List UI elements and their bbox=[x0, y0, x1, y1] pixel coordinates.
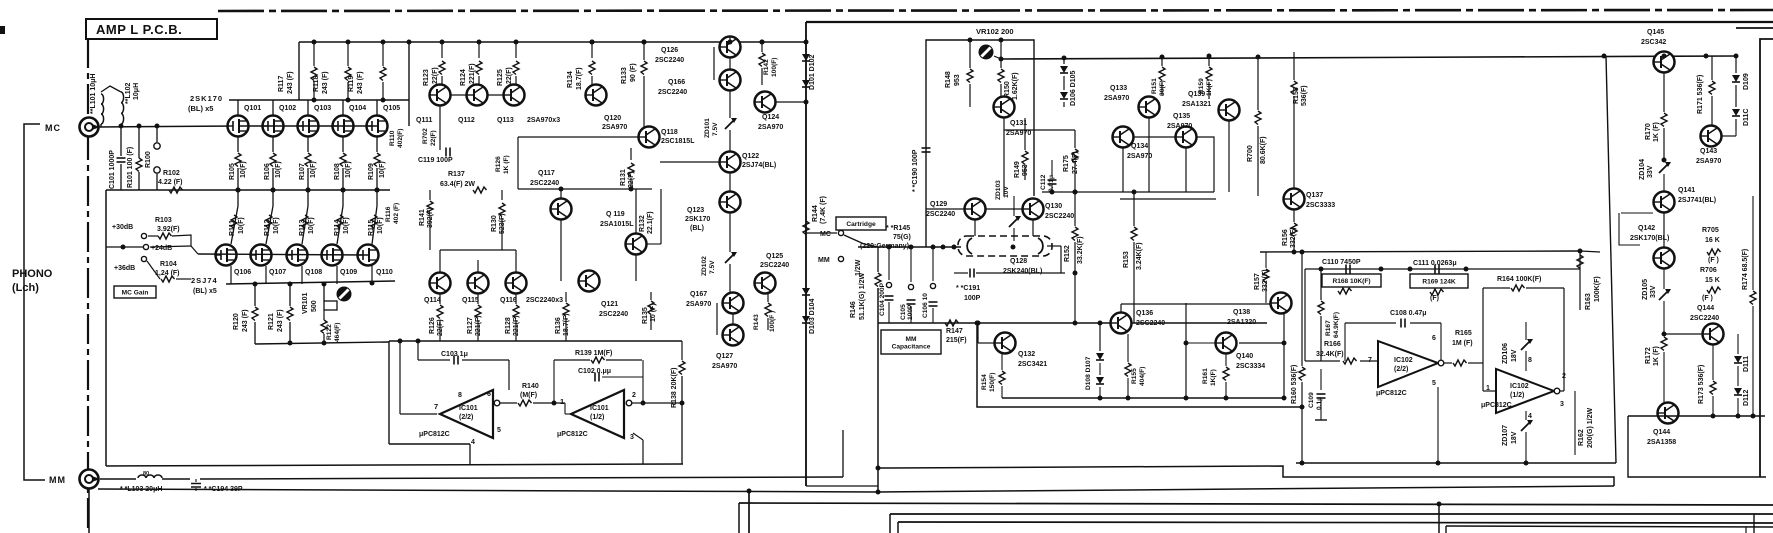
svg-text:2SC2240: 2SC2240 bbox=[655, 57, 684, 64]
svg-text:332 (F): 332 (F) bbox=[1262, 269, 1269, 292]
svg-text:464(F): 464(F) bbox=[334, 323, 341, 342]
svg-text:221(F): 221(F) bbox=[469, 63, 476, 84]
svg-text:ZD107: ZD107 bbox=[1502, 425, 1509, 446]
svg-text:R100: R100 bbox=[145, 151, 152, 168]
svg-text:D108 D107: D108 D107 bbox=[1085, 356, 1092, 390]
transistor Q128 dual fet bbox=[958, 220, 1052, 256]
wire row2 bottom rail bbox=[255, 341, 389, 346]
wire Q114 row top bbox=[440, 250, 516, 272]
svg-text:243 (F): 243 (F) bbox=[242, 309, 249, 332]
svg-text:90 (F): 90 (F) bbox=[630, 63, 637, 82]
capacitor C101 bbox=[117, 124, 126, 191]
svg-text:R137: R137 bbox=[448, 171, 465, 178]
svg-text:Q121: Q121 bbox=[601, 301, 618, 308]
svg-text:C103 1μ: C103 1μ bbox=[441, 351, 468, 358]
diode D105 bbox=[1060, 76, 1068, 107]
zener ZD107 bbox=[1502, 411, 1533, 463]
svg-text:Q104: Q104 bbox=[349, 105, 366, 112]
svg-text:R127: R127 bbox=[467, 317, 474, 334]
transistor Q142 bbox=[1630, 225, 1675, 269]
svg-text:22(F): 22(F) bbox=[628, 171, 635, 188]
node Cartridge label box bbox=[836, 217, 886, 230]
wire bottom verticals bbox=[739, 491, 1439, 533]
svg-text:2SA970: 2SA970 bbox=[686, 301, 711, 308]
svg-text:215(F): 215(F) bbox=[946, 337, 967, 344]
transistor Q127 bbox=[712, 303, 744, 370]
svg-text:R116: R116 bbox=[385, 206, 392, 222]
svg-text:Q108: Q108 bbox=[305, 269, 322, 276]
svg-text:R165: R165 bbox=[1455, 330, 1472, 337]
resistor R133 bbox=[621, 40, 647, 128]
svg-text:243 (F): 243 (F) bbox=[277, 309, 284, 332]
svg-text:33.2K(F): 33.2K(F) bbox=[1077, 236, 1084, 264]
svg-text:8: 8 bbox=[458, 392, 462, 399]
node MC contact bbox=[806, 230, 844, 238]
svg-text:2SC2240x3: 2SC2240x3 bbox=[526, 297, 563, 304]
wire MM bus L4 bbox=[876, 466, 1615, 487]
node MC label bbox=[45, 123, 61, 133]
wire right bottom corner bbox=[1628, 39, 1766, 477]
transistor Q109 bbox=[322, 245, 358, 277]
svg-text:* *C190 100P: * *C190 100P bbox=[912, 149, 919, 192]
zener ZD106 bbox=[1502, 322, 1533, 371]
svg-text:1K (F): 1K (F) bbox=[1653, 346, 1660, 366]
capacitor C105 bbox=[900, 245, 916, 324]
svg-text:100P: 100P bbox=[907, 304, 914, 320]
resistor R142 bbox=[759, 40, 778, 86]
svg-text:2SC2240: 2SC2240 bbox=[658, 89, 687, 96]
zener ZD102 bbox=[701, 213, 737, 292]
svg-text:2SA970: 2SA970 bbox=[602, 124, 627, 131]
transistor Q124 bbox=[755, 92, 809, 132]
wire right rail dots bbox=[1602, 54, 1739, 59]
svg-text:2SC2240: 2SC2240 bbox=[530, 180, 559, 187]
transistor Q119 bbox=[600, 189, 661, 281]
transistor Q125 bbox=[755, 273, 776, 294]
svg-text:R109: R109 bbox=[368, 163, 375, 180]
wire Q140 base bbox=[1184, 303, 1287, 401]
wire FET row2 gate rail bbox=[191, 246, 368, 255]
resistor R146 bbox=[850, 247, 881, 492]
svg-text:18.7(F): 18.7(F) bbox=[576, 67, 583, 90]
svg-text:R132: R132 bbox=[639, 215, 646, 232]
svg-text:100(F ): 100(F ) bbox=[769, 311, 776, 332]
svg-text:392(F): 392(F) bbox=[427, 207, 434, 228]
svg-text:R102: R102 bbox=[163, 170, 180, 177]
wire right rail y58 bbox=[1001, 56, 1736, 59]
svg-text:PHONO: PHONO bbox=[12, 268, 53, 280]
svg-text:10(F): 10(F) bbox=[240, 161, 247, 178]
wire Q141-Q142 bbox=[1663, 213, 1665, 247]
svg-text:Q145: Q145 bbox=[1647, 29, 1664, 36]
node +36dB contact bbox=[114, 256, 147, 272]
svg-text:R149: R149 bbox=[1014, 161, 1021, 178]
resistor R115 bbox=[368, 188, 384, 245]
svg-text:ZD101: ZD101 bbox=[704, 118, 711, 138]
svg-text:(F ): (F ) bbox=[1702, 295, 1713, 302]
svg-text:2SA1358: 2SA1358 bbox=[1647, 439, 1676, 446]
resistor R161 bbox=[1202, 354, 1229, 401]
svg-text:R135: R135 bbox=[642, 307, 649, 324]
svg-text:32.4K(F): 32.4K(F) bbox=[1316, 351, 1344, 358]
wire Q122-Q123 bbox=[729, 173, 731, 191]
svg-text:Q117: Q117 bbox=[538, 170, 555, 177]
wire IC101b pin3 bbox=[633, 433, 643, 464]
capacitor C194 bbox=[191, 479, 201, 491]
svg-text:(F): (F) bbox=[1430, 295, 1439, 302]
svg-text:2SK170: 2SK170 bbox=[685, 216, 710, 223]
svg-text:Q167: Q167 bbox=[690, 291, 707, 298]
transistor Q130 bbox=[1023, 199, 1075, 221]
inductor L102 bbox=[101, 86, 124, 124]
capacitor C104 bbox=[879, 245, 894, 324]
svg-text:0.1μ: 0.1μ bbox=[1316, 397, 1323, 410]
svg-text:243 (F): 243 (F) bbox=[322, 71, 329, 94]
svg-text:ZD105: ZD105 bbox=[1642, 279, 1649, 300]
svg-text:3.24K(F): 3.24K(F) bbox=[1136, 242, 1143, 270]
resistor R125 bbox=[497, 40, 519, 87]
resistor R164 bbox=[1483, 276, 1564, 391]
svg-text:Q114: Q114 bbox=[424, 297, 441, 304]
svg-text:Q122: Q122 bbox=[742, 153, 759, 160]
svg-text:63.4(F) 2W: 63.4(F) 2W bbox=[440, 181, 475, 188]
svg-text:3: 3 bbox=[1560, 401, 1564, 408]
transistor Q122 bbox=[660, 152, 776, 173]
svg-text:18.7(F): 18.7(F) bbox=[563, 313, 570, 336]
svg-text:R104: R104 bbox=[160, 261, 177, 268]
svg-text:C106 10: C106 10 bbox=[922, 293, 929, 318]
svg-text:MM: MM bbox=[818, 257, 830, 264]
node Q128 label bbox=[1003, 258, 1042, 275]
svg-text:(F ): (F ) bbox=[1708, 257, 1719, 264]
wire MM bus L1 bbox=[106, 464, 683, 466]
transistor Q167 bbox=[686, 291, 744, 314]
diode D108 bbox=[1096, 321, 1104, 361]
node D110 label bbox=[1743, 108, 1750, 126]
svg-text:2SC3421: 2SC3421 bbox=[1018, 361, 1047, 368]
resistor R116 bbox=[385, 203, 400, 224]
svg-text:2SC342: 2SC342 bbox=[1641, 39, 1666, 46]
svg-text:R124: R124 bbox=[460, 69, 467, 86]
wire MM bus L3 bbox=[98, 486, 1614, 495]
resistor R124 bbox=[460, 40, 482, 87]
node D101 D102 label bbox=[809, 54, 816, 90]
wire FET row1 gate rail segs bbox=[238, 125, 377, 127]
svg-text:2SC2240: 2SC2240 bbox=[1136, 320, 1165, 327]
svg-text:R121: R121 bbox=[268, 313, 275, 330]
svg-text:D103 D104: D103 D104 bbox=[809, 298, 816, 334]
diode D111 bbox=[1734, 334, 1742, 363]
svg-text:R168 10K(F): R168 10K(F) bbox=[1332, 278, 1370, 285]
node R101 label bbox=[127, 147, 134, 188]
svg-text:1: 1 bbox=[560, 397, 564, 406]
svg-text:Q137: Q137 bbox=[1306, 192, 1323, 199]
inductor L101 bbox=[98, 94, 104, 127]
svg-text:221(F): 221(F) bbox=[513, 315, 520, 336]
svg-text:2SC2240: 2SC2240 bbox=[1045, 213, 1074, 220]
svg-text:R106: R106 bbox=[264, 163, 271, 180]
svg-text:R174 68.5(F): R174 68.5(F) bbox=[1742, 249, 1749, 290]
svg-text:μPC812C: μPC812C bbox=[557, 431, 588, 438]
svg-text:ZD106: ZD106 bbox=[1502, 343, 1509, 364]
svg-text:2SA970: 2SA970 bbox=[1104, 95, 1129, 102]
resistor R169 bbox=[1410, 274, 1468, 302]
svg-text:R171 536(F): R171 536(F) bbox=[1697, 75, 1704, 114]
svg-text:2SC2240: 2SC2240 bbox=[926, 211, 955, 218]
svg-text:R156: R156 bbox=[1282, 229, 1289, 246]
svg-text:R169 124K: R169 124K bbox=[1422, 278, 1456, 285]
wire Q118 rail bbox=[518, 136, 638, 138]
wire feedback bottom rail bbox=[1296, 387, 1616, 466]
transistor Q145 bbox=[1641, 29, 1675, 73]
svg-text:R134: R134 bbox=[567, 71, 574, 88]
svg-text:2SC3334: 2SC3334 bbox=[1236, 363, 1265, 370]
svg-text:R136: R136 bbox=[555, 317, 562, 334]
wire stage2 mid rail bbox=[1004, 118, 1229, 196]
svg-text:Q128: Q128 bbox=[1010, 258, 1027, 265]
svg-text:ZD103: ZD103 bbox=[995, 180, 1002, 200]
svg-text:R172: R172 bbox=[1645, 347, 1652, 364]
node D111 label bbox=[1743, 356, 1750, 372]
svg-text:1: 1 bbox=[1486, 385, 1490, 392]
svg-text:R123: R123 bbox=[423, 69, 430, 86]
svg-text:Q103: Q103 bbox=[314, 105, 331, 112]
svg-text:C101 1000P: C101 1000P bbox=[109, 150, 116, 189]
svg-text:C119 100P: C119 100P bbox=[418, 157, 453, 164]
svg-text:2SA970x3: 2SA970x3 bbox=[527, 117, 560, 124]
wire bottom box y522 bbox=[898, 522, 1773, 533]
svg-text:(BL): (BL) bbox=[690, 225, 704, 232]
wire mid rail y189 bbox=[518, 137, 652, 192]
wire FET row1 drain rail bbox=[229, 100, 409, 116]
svg-text:33V: 33V bbox=[1647, 165, 1654, 178]
transistor Q113 bbox=[497, 85, 560, 125]
svg-text:ZD104: ZD104 bbox=[1639, 159, 1646, 180]
svg-text:R706: R706 bbox=[1700, 267, 1717, 274]
svg-text:2SK170(BL): 2SK170(BL) bbox=[1630, 235, 1669, 242]
wire top-right nested corner b bbox=[1760, 39, 1773, 477]
svg-text:R126: R126 bbox=[495, 156, 502, 172]
wire Q143 links bbox=[1662, 130, 1737, 163]
svg-text:(BL) x5: (BL) x5 bbox=[188, 104, 213, 113]
svg-text:10 (F): 10 (F) bbox=[650, 303, 657, 322]
potentiometer VR102 bbox=[979, 45, 1002, 60]
svg-text:R115: R115 bbox=[368, 220, 375, 236]
svg-text:7: 7 bbox=[434, 402, 438, 411]
transistor Q117 bbox=[530, 170, 572, 220]
svg-text:3.92(F): 3.92(F) bbox=[157, 226, 180, 233]
wire bottom nested box bbox=[1446, 514, 1773, 533]
node 1/2W label bbox=[855, 259, 862, 276]
resistor R148 bbox=[945, 38, 973, 108]
svg-text:33V: 33V bbox=[1650, 285, 1657, 298]
capacitor C108 bbox=[1345, 310, 1441, 363]
resistor R140 bbox=[500, 383, 572, 414]
svg-text:VR101: VR101 bbox=[302, 292, 309, 314]
resistor R175 bbox=[1063, 130, 1079, 192]
svg-text:R143: R143 bbox=[753, 314, 760, 330]
svg-text:R164 100K(F): R164 100K(F) bbox=[1497, 276, 1541, 283]
svg-text:Q166: Q166 bbox=[668, 79, 685, 86]
svg-text:30(F): 30(F) bbox=[1159, 80, 1166, 96]
svg-text:1K (F): 1K (F) bbox=[503, 155, 510, 174]
svg-text:1K (F): 1K (F) bbox=[1653, 122, 1660, 142]
svg-text:Capacitance: Capacitance bbox=[892, 344, 931, 351]
svg-text:51.1K(G) 1/2W: 51.1K(G) 1/2W bbox=[859, 273, 866, 320]
resistor R158 bbox=[1291, 52, 1308, 188]
transistor Q126 bbox=[655, 37, 741, 65]
svg-text:R112: R112 bbox=[264, 220, 271, 236]
resistor R160 bbox=[1291, 250, 1305, 466]
resistor R123 bbox=[423, 40, 445, 87]
svg-text:Q124: Q124 bbox=[762, 114, 779, 121]
resistor R159 bbox=[1198, 54, 1213, 100]
wire MM terminal tail bbox=[88, 438, 90, 533]
resistor R154 bbox=[981, 354, 1005, 398]
svg-text:22(F): 22(F) bbox=[506, 67, 513, 84]
wire MM cap rail y323 bbox=[878, 322, 1267, 324]
node MC input terminal bbox=[80, 118, 101, 137]
resistor R143 bbox=[753, 294, 776, 332]
svg-text:2SA970: 2SA970 bbox=[758, 124, 783, 131]
node +30dB contact bbox=[112, 224, 147, 239]
svg-text:R131: R131 bbox=[620, 169, 627, 186]
svg-text:2SJ741(BL): 2SJ741(BL) bbox=[1678, 197, 1716, 204]
svg-text:1.62K(F): 1.62K(F) bbox=[1012, 72, 1019, 100]
capacitor C119 bbox=[418, 148, 453, 165]
svg-text:402 (F): 402 (F) bbox=[393, 203, 400, 224]
node Q125 label bbox=[760, 253, 789, 269]
transistor Q139 bbox=[1182, 91, 1240, 121]
transistor Q102 bbox=[263, 105, 297, 137]
resistor R144 bbox=[803, 196, 827, 235]
resistor R700 bbox=[1247, 55, 1267, 197]
svg-text:1K(F): 1K(F) bbox=[1206, 79, 1213, 96]
transistor Q129 bbox=[926, 199, 986, 220]
wire feedback rail y252 bbox=[1260, 249, 1600, 255]
svg-text:R702: R702 bbox=[422, 128, 429, 144]
svg-text:C105: C105 bbox=[900, 304, 907, 320]
svg-text:(Lch): (Lch) bbox=[12, 282, 39, 294]
svg-text:R114: R114 bbox=[334, 220, 341, 236]
svg-text:22(F): 22(F) bbox=[437, 319, 444, 336]
svg-text:R173 536(F): R173 536(F) bbox=[1698, 365, 1705, 404]
wire Q117 col bbox=[560, 190, 562, 281]
svg-text:5: 5 bbox=[1432, 380, 1436, 387]
svg-text:64.9K(F): 64.9K(F) bbox=[1333, 312, 1340, 338]
svg-text:R125: R125 bbox=[497, 69, 504, 86]
svg-text:D101 D102: D101 D102 bbox=[809, 54, 816, 90]
resistor R102 bbox=[158, 170, 183, 193]
svg-text:16 K: 16 K bbox=[1705, 237, 1720, 244]
svg-text:C110 7450P: C110 7450P bbox=[1322, 259, 1361, 266]
transistor Q138 bbox=[1271, 293, 1292, 314]
node MM label bbox=[49, 475, 66, 485]
svg-text:221(F): 221(F) bbox=[475, 315, 482, 336]
svg-text:μPC812C: μPC812C bbox=[419, 431, 450, 438]
svg-text:Q129: Q129 bbox=[930, 201, 947, 208]
wire gain box left edge bbox=[105, 190, 107, 466]
node R100 label bbox=[145, 151, 152, 168]
svg-text:Q144: Q144 bbox=[1697, 305, 1714, 312]
svg-text:R110: R110 bbox=[389, 130, 396, 146]
node Q144 label bbox=[1690, 305, 1719, 322]
node Q138 label bbox=[1227, 309, 1256, 326]
svg-text:Q109: Q109 bbox=[340, 269, 357, 276]
svg-text:R170: R170 bbox=[1645, 123, 1652, 140]
svg-text:Q110: Q110 bbox=[376, 269, 393, 276]
resistor R107 bbox=[299, 137, 317, 193]
svg-text:953: 953 bbox=[1022, 164, 1029, 176]
svg-text:Q141: Q141 bbox=[1678, 187, 1695, 194]
resistor R103 bbox=[148, 217, 191, 246]
svg-text:D111: D111 bbox=[1743, 356, 1750, 372]
svg-text:D112: D112 bbox=[1743, 390, 1750, 406]
capacitor C103 bbox=[418, 341, 509, 390]
diode D110 bbox=[1732, 85, 1740, 130]
svg-text:R140: R140 bbox=[522, 383, 539, 390]
node D109 label bbox=[1743, 73, 1750, 90]
node MM input terminal bbox=[80, 470, 101, 489]
resistor R156 bbox=[1282, 210, 1297, 252]
svg-text:R158: R158 bbox=[1293, 87, 1300, 104]
svg-text:953: 953 bbox=[954, 74, 961, 86]
op-amp IC101 (2/2) bbox=[419, 390, 501, 446]
capacitor C112 bbox=[1040, 160, 1057, 192]
transistor Q146 bbox=[1647, 403, 1679, 447]
svg-text:404(F): 404(F) bbox=[1139, 367, 1146, 386]
resistor R110 bbox=[389, 129, 404, 148]
wire VR102 box bbox=[926, 40, 1034, 247]
wire MC lower rail bbox=[106, 189, 390, 191]
wire Q132 base bbox=[976, 321, 995, 344]
svg-text:Q106: Q106 bbox=[234, 269, 251, 276]
svg-text:Q116: Q116 bbox=[500, 297, 517, 304]
svg-text:**L102: **L102 bbox=[125, 82, 132, 104]
transistor Q105 bbox=[367, 105, 401, 137]
svg-text:Q118: Q118 bbox=[661, 129, 678, 136]
svg-text:IC101: IC101 bbox=[590, 405, 609, 412]
resistor R138 bbox=[671, 341, 685, 464]
transistor Q134 bbox=[1113, 127, 1153, 161]
resistor R157 bbox=[1254, 252, 1269, 303]
svg-text:10(F): 10(F) bbox=[275, 161, 282, 178]
svg-text:18V: 18V bbox=[1511, 431, 1518, 444]
resistor R702 bbox=[422, 106, 440, 150]
svg-text:IC101: IC101 bbox=[459, 405, 478, 412]
svg-text:R118: R118 bbox=[313, 76, 320, 92]
node 2SJ74 label bbox=[191, 276, 218, 295]
svg-text:IC102: IC102 bbox=[1510, 383, 1529, 390]
resistor R128 bbox=[505, 294, 520, 341]
potentiometer VR101 bbox=[302, 284, 352, 314]
svg-text:R111: R111 bbox=[229, 220, 236, 236]
svg-text:2SA1320: 2SA1320 bbox=[1227, 319, 1256, 326]
wire switch wiper bbox=[844, 235, 878, 247]
svg-text:ZD102: ZD102 bbox=[701, 256, 708, 276]
zener ZD101 bbox=[704, 91, 737, 151]
wire top mid rail y42 bbox=[299, 40, 809, 45]
resistor R149 bbox=[1014, 118, 1029, 180]
svg-text:10(F): 10(F) bbox=[377, 217, 384, 234]
diode D101 bbox=[802, 22, 810, 61]
svg-text:R139 1M(F): R139 1M(F) bbox=[575, 350, 612, 357]
transistor Q131 bbox=[994, 97, 1032, 138]
svg-text:R175: R175 bbox=[1063, 155, 1070, 172]
node PHONO (Lch) label bbox=[12, 268, 53, 294]
node R145 label bbox=[860, 225, 911, 250]
op-amp IC102 (2/2) bbox=[1368, 335, 1444, 397]
